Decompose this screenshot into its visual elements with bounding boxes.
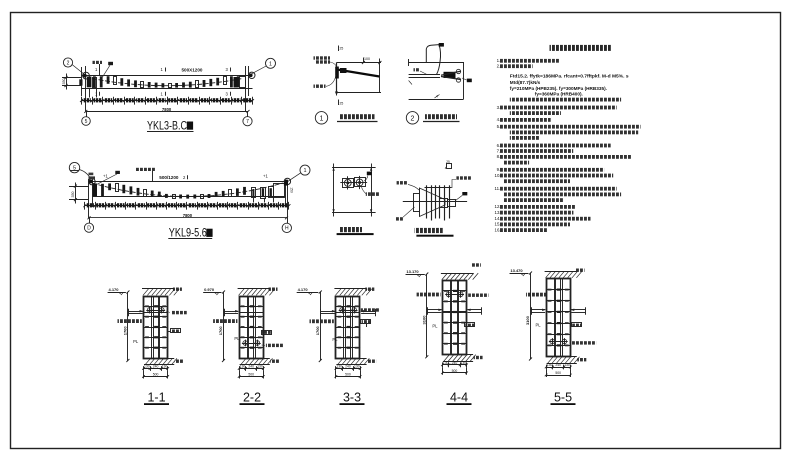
svg-text:350: 350 (71, 192, 75, 198)
svg-text:240: 240 (345, 365, 351, 369)
section 1-1 bottom width dims (144, 368, 168, 370)
svg-text:1: 1 (269, 61, 272, 67)
bolt-plan top line (332, 167, 376, 169)
svg-text:500: 500 (452, 369, 458, 373)
svg-text:13.170: 13.170 (406, 269, 419, 274)
bolt-plan bolt right (355, 178, 366, 187)
section 2-2 top plate label (269, 288, 278, 291)
svg-text:1700: 1700 (315, 326, 320, 336)
beam YKL9 node circle left (89, 178, 95, 184)
section 3-3 label anchor bolts (310, 319, 334, 323)
section 1-1 left height dim (127, 292, 129, 361)
svg-text:1.: 1. (497, 58, 501, 63)
section 3-3 bottom width dims (336, 368, 360, 370)
section 5-5 label studs (526, 293, 547, 297)
beam YKL3 grid bubble 5 bottom-left (86, 111, 88, 116)
beam YKL3 bubble-2 leader (72, 65, 86, 76)
note 11 cont (503, 193, 621, 197)
section 2-2 left height dim (223, 292, 225, 361)
detail-2 bent rebar (426, 45, 439, 63)
beam YKL3 label N1 (108, 62, 113, 65)
section 5-5 left height dim (530, 273, 532, 359)
detail-2 left mid tick (409, 81, 412, 85)
detail-2 left tick (408, 59, 410, 66)
beam YKL3 node circle left (83, 72, 90, 79)
svg-text:0.970: 0.970 (204, 287, 215, 292)
beam YKL3 left column side marks (79, 79, 82, 85)
note 5 cont2 (510, 136, 540, 140)
svg-text:1: 1 (320, 115, 324, 122)
detail-2 slab top line (409, 62, 464, 64)
detail-1 left label b (316, 60, 331, 63)
svg-text:500: 500 (248, 373, 254, 377)
section 2-2 bottom plate label (270, 360, 279, 363)
bolt-plan label 2-M (366, 192, 380, 196)
svg-text:130: 130 (162, 365, 168, 369)
svg-text:25: 25 (340, 47, 344, 51)
section 3-3 column outline (336, 297, 360, 359)
svg-text:150: 150 (290, 187, 294, 193)
beam YKL3 bubble-1 leader (249, 66, 266, 75)
svg-text:25: 25 (340, 102, 344, 106)
svg-text:H: H (285, 226, 289, 232)
svg-text:240: 240 (248, 365, 254, 369)
section 4-4 left height dim (426, 274, 428, 357)
svg-text:5.: 5. (497, 124, 501, 129)
detail-1 thick rebar diagonal (337, 70, 380, 77)
section 1-1 inner ladder (151, 296, 153, 358)
detail-2 bottom slope tick (435, 95, 440, 99)
detail-1 bubble 1 (315, 112, 327, 124)
beam YKL3 grid bubble 1 top-right (266, 58, 276, 68)
svg-text:100: 100 (364, 57, 370, 61)
beam YKL3 left end rebar blobs (87, 77, 92, 88)
section 2-2 label anchor bolts (213, 319, 237, 323)
svg-text:130: 130 (257, 365, 263, 369)
section 3-3 top plate label (365, 288, 374, 291)
svg-text:16.: 16. (495, 227, 501, 232)
svg-text:fy=360MPa (HRB400).: fy=360MPa (HRB400). (535, 92, 583, 97)
beam YKL3 bottom grid line (86, 111, 248, 113)
embed label 25 box (447, 164, 452, 169)
beam YKL3 sloped rebar curve (92, 79, 242, 86)
detail-2 right label (467, 79, 472, 83)
svg-text:4.170: 4.170 (109, 287, 120, 292)
beam YKL9 right tall stirrup c (269, 187, 274, 198)
section 4-4 hatch bottom (443, 354, 473, 356)
embed label left-bottom (396, 217, 403, 220)
svg-text:Mtd(87.7)kN/s: Mtd(87.7)kN/s (510, 80, 541, 85)
note 2 tail (510, 98, 621, 102)
section 3-3 left height dim (320, 292, 322, 361)
section 3-3 right box label (361, 320, 371, 324)
section 1-1 label anchor bolts (118, 319, 142, 323)
notes title (550, 45, 611, 51)
detail-1 caption (340, 114, 375, 119)
beam YKL9 bottom grid line (89, 217, 287, 219)
embed plate mid (440, 199, 448, 208)
beam YKL9 top chord line (88, 181, 287, 183)
svg-text:130: 130 (336, 365, 342, 369)
beam YKL3 band bottom line (82, 88, 253, 90)
beam YKL9 label 2-f25 (136, 168, 156, 171)
beam YKL3 label 2-f25 (93, 61, 103, 64)
svg-text:PL: PL (332, 337, 338, 342)
svg-text:130: 130 (460, 361, 466, 365)
section 1-1 right box label (171, 329, 181, 333)
section 3-3 inner ladder (343, 296, 345, 358)
section 1-1 side weld arrows (129, 311, 143, 313)
detail-1 bottom tick 25 (338, 100, 340, 106)
svg-text:5-5: 5-5 (554, 391, 572, 405)
beam YKL9 sloped rebar curve (92, 183, 283, 197)
svg-text:PL: PL (234, 336, 240, 341)
section 2-2 hatch top (238, 288, 270, 290)
beam YKL3 right column (245, 66, 247, 111)
svg-text:350: 350 (62, 79, 66, 85)
beam YKL3 left dim 350 (62, 77, 82, 79)
svg-text:2-2: 2-2 (243, 391, 261, 405)
section 3-3 hatch top (334, 288, 366, 290)
svg-text:500: 500 (153, 373, 159, 377)
svg-text:YKL9-5.6: YKL9-5.6 (169, 228, 207, 240)
detail-1 left label a (314, 56, 331, 59)
svg-text:240: 240 (555, 363, 561, 367)
embed studs (426, 185, 428, 218)
svg-text:1700: 1700 (122, 326, 127, 336)
detail-2 caption (425, 114, 457, 119)
svg-text:+1: +1 (103, 174, 108, 179)
section 3-3 bottom plate label (367, 360, 376, 363)
section 4-4 column outline (443, 281, 467, 355)
beam YKL9 grid bubble bottom-right (282, 223, 291, 232)
section 4-4 right label 2-M (468, 294, 488, 297)
note 8 cont (503, 161, 529, 165)
beam YKL9 left dim 350 (69, 186, 88, 188)
beam YKL3 grid bubble 2 top-left (63, 58, 72, 67)
svg-text:PL: PL (432, 324, 438, 329)
section 2-2 inner ladder (247, 296, 249, 358)
embed caption (415, 228, 443, 233)
svg-text:2.: 2. (497, 64, 501, 69)
embed label studs (456, 176, 472, 179)
section 5-5 right box label (572, 323, 582, 327)
section 3-3 rebar circles (340, 308, 345, 313)
section 2-2 bottom width dims (239, 368, 263, 370)
section 5-5 column outline (547, 279, 571, 357)
section 1-1 hatch bottom (144, 358, 174, 360)
detail-2 bottom line (409, 99, 464, 101)
svg-text:130: 130 (547, 363, 553, 367)
svg-text:8.: 8. (497, 154, 501, 159)
section 1-1 bottom plate label (175, 360, 184, 363)
beam YKL3 segment dimension row (82, 100, 253, 102)
beam YKL9 right tall stirrup b (261, 188, 266, 199)
svg-text:3100: 3100 (525, 315, 530, 325)
beam YKL9 bubble-right leader (288, 173, 301, 182)
svg-text:14.: 14. (495, 216, 501, 221)
section 1-1 rebar circles (147, 308, 152, 313)
beam YKL9 right corner blob (284, 182, 288, 185)
detail-1 column face blobs (335, 67, 339, 79)
svg-text:25: 25 (446, 160, 450, 164)
svg-text:240: 240 (153, 365, 159, 369)
bolt-plan label M (367, 172, 372, 176)
section 4-4 top plate label (472, 263, 481, 266)
embed label right M (462, 192, 467, 195)
beam YKL3 top chord line (82, 75, 253, 77)
section 2-2 right label 5-M (266, 344, 284, 347)
svg-text:15.: 15. (495, 222, 501, 227)
beam YKL3 dim extension lines (89, 88, 91, 98)
svg-text:6.: 6. (497, 143, 501, 148)
svg-text:11.: 11. (495, 186, 501, 191)
svg-text:5: 5 (85, 119, 88, 125)
section 5-5 bottom plate label (577, 358, 586, 361)
section 4-4 bottom plate label (474, 356, 483, 359)
section 2-2 rebar circles (243, 341, 248, 346)
section 2-2 column outline (240, 297, 264, 359)
embed label left-top (397, 181, 408, 184)
beam YKL9 right column (285, 180, 287, 207)
section 5-5 rebar circles (550, 339, 555, 344)
bolt-plan caption (340, 227, 363, 232)
svg-text:1: 1 (303, 168, 306, 174)
section 4-4 label studs (417, 293, 441, 297)
beam YKL9 label N (115, 171, 120, 174)
section 3-3 side weld arrows (321, 311, 335, 313)
svg-text:PL: PL (536, 323, 542, 328)
svg-text:4.170: 4.170 (298, 287, 309, 292)
svg-text:1-1: 1-1 (147, 391, 165, 405)
svg-text:13.: 13. (495, 210, 501, 215)
bolt-plan bolt left (343, 179, 354, 188)
beam YKL3 node circle right (249, 72, 255, 78)
svg-text:D: D (87, 226, 91, 232)
beam YKL9 grid bubble top-left (69, 162, 79, 172)
section 4-4 hatch top (441, 273, 473, 275)
svg-text:9.: 9. (497, 167, 501, 172)
beam YKL3 left column (81, 67, 83, 96)
svg-text:130: 130 (443, 361, 449, 365)
section 5-5 inner ladder (554, 279, 556, 357)
section 4-4 side weld arrows (427, 309, 441, 311)
beam YKL9 stirrup marks (94, 184, 97, 196)
svg-text:2: 2 (67, 60, 70, 66)
section 4-4 rebar circles (446, 292, 451, 297)
section 4-4 inner ladder (450, 280, 452, 354)
svg-text:13.470: 13.470 (510, 268, 523, 273)
section 2-2 right box label (262, 331, 272, 335)
svg-text:+1: +1 (263, 173, 268, 178)
beam YKL9 segment dimension row (85, 205, 289, 207)
detail-2 bubble 2 (406, 112, 418, 124)
beam YKL9 bubble-left leader (79, 170, 92, 182)
section 4-4 bottom width dims (442, 364, 466, 366)
beam YKL9 grid bubble bottom-left (89, 218, 91, 223)
svg-text:4: 4 (436, 95, 438, 99)
section 2-2 hatch bottom (240, 358, 270, 360)
section 1-1 top plate label (173, 288, 182, 291)
section 5-5 side weld arrows (531, 309, 545, 311)
svg-text:240: 240 (452, 361, 458, 365)
beam YKL3 right end anchorage (240, 77, 246, 88)
detail-1 top dim (363, 58, 365, 63)
bolt-plan right dim line (371, 164, 373, 217)
section 5-5 hatch bottom (547, 356, 577, 358)
svg-text:4.: 4. (497, 117, 501, 122)
svg-text:Ftd15.2. ffytk=186MPa. rfcant=: Ftd15.2. ffytk=186MPa. rfcant=0.7fftpkf.… (510, 74, 629, 80)
svg-text:3100: 3100 (421, 315, 426, 325)
beam YKL9 mid chord line (92, 196, 285, 198)
detail-2 right line (463, 62, 465, 99)
embed centerline (403, 201, 467, 203)
svg-text:PL: PL (133, 339, 139, 344)
svg-text:fy=210MPa (HPB235). fy=300MPa: fy=210MPa (HPB235). fy=300MPa (HRB335). (510, 86, 607, 91)
svg-text:500: 500 (345, 373, 351, 377)
embed stub (448, 200, 456, 207)
svg-text:500X1200: 500X1200 (182, 67, 203, 72)
detail-2 anchor cluster (444, 72, 456, 78)
bolt-plan bottom line (332, 212, 376, 214)
beam YKL9 node circle right (284, 178, 290, 184)
beam YKL9 right tall stirrup a (252, 188, 256, 198)
section 5-5 top plate label (576, 269, 585, 272)
beam YKL3 stirrup marks (93, 76, 96, 87)
svg-text:12.: 12. (495, 204, 501, 209)
svg-text:130: 130 (240, 365, 246, 369)
beam YKL3 grid bubble 7 bottom-right (247, 111, 249, 116)
detail-1 left label c (314, 85, 326, 88)
svg-text:130: 130 (144, 365, 150, 369)
embed studs top bar (425, 187, 452, 189)
bolt-plan left dim line (333, 164, 335, 217)
section 1-1 column outline (144, 297, 168, 359)
svg-text:130: 130 (354, 365, 360, 369)
beam YKL9 dim extension lines (253, 198, 255, 203)
detail-1 down arrow (336, 89, 338, 96)
beam YKL9 right end anchorage box (274, 184, 285, 198)
section 1-1 hatch top (142, 288, 174, 290)
beam YKL9 grid bubble top-right (300, 165, 310, 175)
svg-text:3.: 3. (497, 105, 501, 110)
note 11 cont2 (503, 198, 563, 202)
beam YKL9 left end rebar blobs (93, 184, 97, 197)
section 5-5 right label 5-M (571, 341, 596, 344)
section 3-3 right label 2-M (361, 308, 380, 311)
embed left plate (414, 194, 420, 212)
embed cone (419, 188, 445, 217)
svg-text:500/1200: 500/1200 (159, 175, 179, 180)
section 4-4 right box label (465, 323, 475, 327)
svg-text:4-4: 4-4 (450, 391, 468, 405)
section 5-5 hatch top (545, 271, 577, 273)
detail-1 top tick 25 (338, 46, 340, 52)
svg-text:7: 7 (246, 119, 249, 125)
svg-text:3-3: 3-3 (343, 391, 361, 405)
svg-text:500: 500 (555, 371, 561, 375)
note 10 cont (503, 179, 570, 183)
section 1-1 right label 5-M (171, 311, 187, 314)
section 3-3 hatch bottom (336, 358, 366, 360)
svg-text:130: 130 (564, 363, 570, 367)
svg-text:2: 2 (411, 115, 415, 122)
detail-2 plate lines (409, 74, 440, 76)
section 2-2 side weld arrows (224, 311, 238, 313)
detail-2 left label N (414, 68, 421, 71)
svg-text:YKL3-B.C: YKL3-B.C (147, 120, 187, 132)
detail-2 rebar top label (439, 43, 444, 47)
beam YKL9 left column (88, 179, 90, 218)
section 5-5 bottom width dims (546, 367, 570, 369)
note 3 cont (510, 111, 561, 115)
detail-1 beam outline (337, 62, 382, 64)
svg-text:10.: 10. (495, 173, 501, 178)
note 5 cont (510, 131, 638, 135)
svg-text:1700: 1700 (218, 326, 223, 336)
svg-text:7.: 7. (497, 148, 501, 153)
